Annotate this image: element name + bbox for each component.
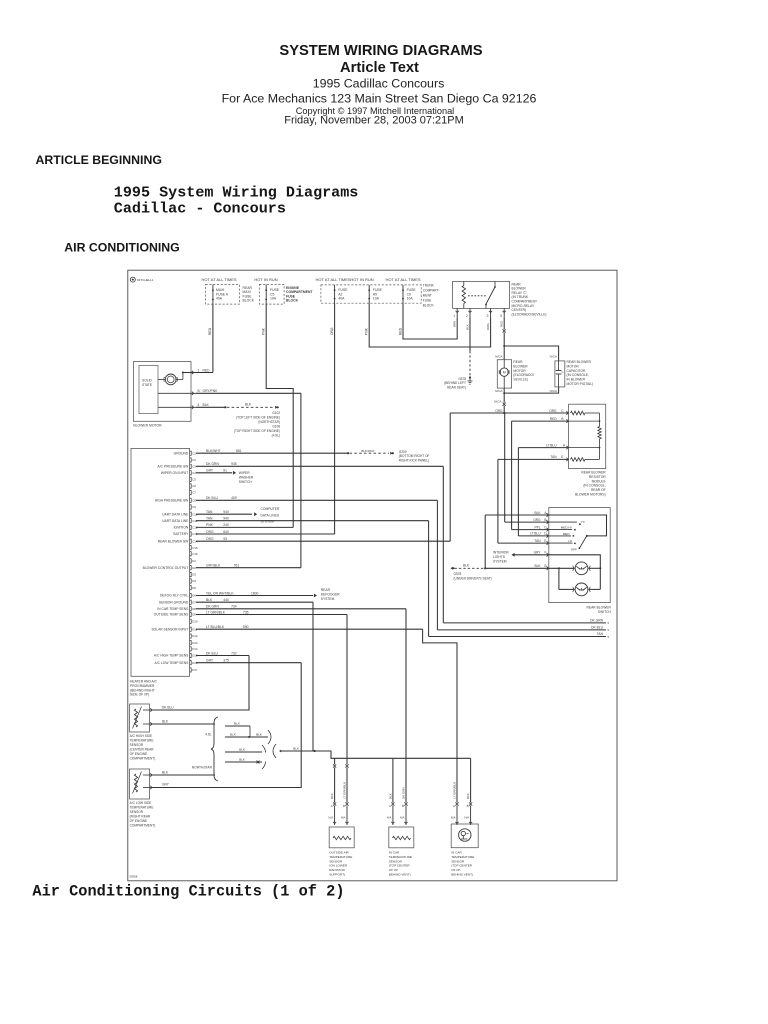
svg-text:B: B — [198, 389, 200, 393]
svg-text:REAR SEAT): REAR SEAT) — [447, 385, 466, 389]
svg-text:SYSTEM: SYSTEM — [493, 559, 507, 563]
svg-text:N/A: N/A — [400, 816, 405, 820]
svg-text:IN CAR: IN CAR — [389, 851, 400, 855]
svg-text:DK GRN: DK GRN — [206, 462, 219, 466]
svg-text:C15: C15 — [192, 546, 198, 550]
svg-text:TEMPERATURE: TEMPERATURE — [389, 855, 412, 859]
wiper washer switch arrow — [233, 471, 236, 475]
svg-text:A: A — [389, 804, 391, 808]
svg-text:DK BLU: DK BLU — [591, 626, 604, 630]
svg-text:For Ace Mechanics 123 Main Str: For Ace Mechanics 123 Main Street San Di… — [222, 91, 537, 105]
svg-text:93: 93 — [223, 537, 227, 541]
svg-text:BLK: BLK — [162, 771, 169, 775]
svg-text:1600: 1600 — [251, 591, 259, 595]
svg-text:1: 1 — [198, 368, 200, 372]
svg-text:(RIGHT REAR: (RIGHT REAR — [130, 815, 151, 819]
wire LT BLU feed to switch pin D — [517, 448, 519, 536]
splice wires 4.9L — [225, 725, 250, 727]
svg-text:N/A: N/A — [328, 816, 333, 820]
in car sensor aspirator — [451, 824, 478, 848]
module vertical resistor — [599, 413, 601, 427]
switch pin A common loop — [549, 515, 607, 536]
svg-text:5: 5 — [608, 621, 610, 625]
svg-text:BLK: BLK — [245, 403, 252, 407]
wire RED relay pin 5 to rear blower motor — [503, 318, 505, 330]
svg-text:SWITCH: SWITCH — [598, 610, 612, 614]
svg-text:DEFOG RLY CTRL: DEFOG RLY CTRL — [160, 594, 188, 598]
svg-text:LT BLU: LT BLU — [546, 443, 557, 447]
fuse MAXI FUSE A (rear maxi fuse block) — [206, 285, 240, 305]
svg-text:G102: G102 — [272, 411, 280, 415]
wire ORG jog to programmer rear blower row — [450, 412, 504, 414]
svg-text:SENSOR GROUND: SENSOR GROUND — [159, 600, 189, 604]
svg-text:DK BLU: DK BLU — [206, 651, 219, 655]
svg-text:C2: C2 — [192, 458, 196, 462]
svg-text:440: 440 — [223, 598, 229, 602]
svg-text:ORG: ORG — [486, 323, 490, 331]
svg-text:A/C LOW TEMP SENS: A/C LOW TEMP SENS — [155, 661, 190, 665]
wire DK GRN riser to exit — [442, 466, 444, 623]
wire DK BLU 732 A/C high temp — [196, 655, 249, 657]
heater and A/C programmer box — [131, 448, 190, 676]
svg-text:C4: C4 — [192, 471, 196, 475]
wire RED from maxi fuse A to blower motor pin 1 — [212, 304, 214, 372]
svg-text:BLK: BLK — [463, 564, 470, 568]
svg-text:BRN: BRN — [453, 321, 457, 327]
svg-text:BLK: BLK — [234, 722, 241, 726]
svg-text:375: 375 — [223, 659, 229, 663]
svg-text:GRY/BLK: GRY/BLK — [206, 564, 221, 568]
svg-text:2: 2 — [466, 314, 468, 318]
wire ORG 93 rear blower switch feed — [196, 540, 450, 542]
svg-text:N/CA: N/CA — [550, 354, 558, 358]
switch position LO — [549, 542, 573, 544]
svg-text:HOT AT ALL TIMES: HOT AT ALL TIMES — [201, 277, 236, 282]
svg-text:DEFOGGER: DEFOGGER — [321, 593, 340, 597]
svg-text:GRY/PNK: GRY/PNK — [203, 389, 219, 393]
svg-text:BLOWER CONTROL OUTPUT: BLOWER CONTROL OUTPUT — [143, 566, 189, 570]
svg-text:ORG: ORG — [533, 518, 541, 522]
ground G578 behind left rear seat — [469, 376, 471, 378]
svg-text:(TOP RIGHT SIDE OF ENGINE): (TOP RIGHT SIDE OF ENGINE) — [234, 429, 280, 433]
svg-text:COMPART-: COMPART- — [423, 289, 440, 293]
switch position MED HI — [549, 529, 572, 531]
svg-text:LT BLU/BLK: LT BLU/BLK — [206, 625, 225, 629]
svg-text:D12: D12 — [192, 634, 198, 638]
svg-text:Air Conditioning Circuits (1 o: Air Conditioning Circuits (1 of 2) — [32, 883, 344, 901]
svg-text:WASHER: WASHER — [239, 475, 254, 479]
svg-text:DK GRN: DK GRN — [402, 787, 406, 799]
svg-text:MENT: MENT — [423, 294, 432, 298]
wire DK BLU 409 high pressure switch — [196, 499, 437, 501]
svg-text:10A: 10A — [270, 297, 277, 301]
wire BLK 440 sensor ground — [196, 601, 313, 603]
svg-text:REAR BLOWER SW: REAR BLOWER SW — [158, 539, 189, 543]
svg-text:TAN: TAN — [206, 510, 213, 514]
svg-text:D9: D9 — [192, 613, 196, 617]
svg-text:BATTERY: BATTERY — [173, 532, 189, 536]
svg-text:PROGRAMMER: PROGRAMMER — [130, 684, 155, 688]
svg-text:OUTSIDE TEMP SENS: OUTSIDE TEMP SENS — [154, 613, 189, 617]
svg-text:BLK: BLK — [389, 793, 393, 799]
svg-text:RED: RED — [398, 327, 402, 335]
wire ORG 640 battery — [196, 533, 335, 535]
wire DK GRN 935 A/C pressure switch — [196, 465, 443, 467]
wire GRY drop to low side sensor — [152, 663, 301, 788]
svg-text:HOT IN RUN: HOT IN RUN — [350, 277, 373, 282]
svg-text:COMPUTER: COMPUTER — [261, 507, 280, 511]
svg-text:B: B — [343, 804, 345, 808]
svg-text:IGNITION: IGNITION — [174, 526, 189, 530]
blower pins — [183, 372, 196, 374]
svg-text:(NORTHSTAR): (NORTHSTAR) — [258, 420, 280, 424]
switch pin F to lamp rail — [549, 555, 601, 569]
svg-text:5: 5 — [500, 314, 502, 318]
svg-text:(UNDER DRIVER'S SEAT): (UNDER DRIVER'S SEAT) — [454, 576, 492, 580]
wire BLK to ground G102/G108 — [196, 406, 225, 408]
svg-text:PNK: PNK — [262, 327, 266, 335]
svg-text:C1: C1 — [192, 451, 196, 455]
svg-text:OF ENGINE: OF ENGINE — [130, 752, 148, 756]
svg-text:GRY: GRY — [534, 551, 542, 555]
svg-text:91: 91 — [223, 469, 227, 473]
diagram border frame — [128, 270, 617, 881]
svg-text:C3: C3 — [192, 464, 196, 468]
svg-text:N/CA: N/CA — [495, 389, 503, 393]
svg-text:TEMPERATURE: TEMPERATURE — [130, 739, 154, 743]
relay contact switch — [468, 295, 486, 297]
svg-text:GRY: GRY — [162, 783, 170, 787]
svg-text:B: B — [467, 804, 469, 808]
svg-text:MODULE: MODULE — [592, 479, 607, 483]
svg-text:STATE: STATE — [142, 383, 153, 387]
svg-text:BLK: BLK — [239, 748, 246, 752]
svg-text:935: 935 — [231, 462, 237, 466]
wire PNK from fuse A9 to relay pin 3 — [369, 303, 490, 347]
switch pin labels — [547, 513, 549, 517]
splice brace left — [211, 717, 218, 781]
wire BLK low side sensor — [152, 774, 215, 776]
svg-text:BLK/WHT: BLK/WHT — [206, 449, 221, 453]
svg-text:HOT AT ALL TIMES: HOT AT ALL TIMES — [315, 277, 350, 282]
svg-text:N/A: N/A — [464, 816, 469, 820]
wire DK GRN exit to page 2 — [443, 622, 606, 624]
svg-text:40A: 40A — [216, 297, 223, 301]
svg-text:SENSOR: SENSOR — [329, 859, 343, 863]
svg-text:D3: D3 — [192, 573, 196, 577]
svg-text:BLK: BLK — [330, 793, 334, 799]
svg-text:732: 732 — [231, 651, 237, 655]
switch position MED — [549, 535, 571, 537]
svg-text:D17: D17 — [192, 668, 198, 672]
svg-text:SEVILLE): SEVILLE) — [513, 378, 527, 382]
svg-text:A/C LOW SIDE: A/C LOW SIDE — [130, 801, 152, 805]
svg-text:SOLID: SOLID — [142, 378, 153, 382]
svg-text:SWITCH: SWITCH — [239, 480, 253, 484]
svg-text:LT GRN/BLK: LT GRN/BLK — [206, 610, 226, 614]
wire BLK branch outside sensor — [334, 758, 336, 764]
svg-text:(IN CONSOLE,: (IN CONSOLE, — [583, 484, 605, 488]
wire GRY/BLK 761 blower control — [196, 567, 301, 569]
svg-text:REAR BLOWER: REAR BLOWER — [581, 471, 606, 475]
svg-text:B: B — [561, 417, 563, 421]
svg-text:A/C PRESSURE SW: A/C PRESSURE SW — [158, 465, 190, 469]
svg-text:(CENTER REAR: (CENTER REAR — [130, 748, 155, 752]
svg-text:3: 3 — [487, 314, 489, 318]
svg-text:LO: LO — [568, 539, 573, 543]
module pin C wire ORG — [504, 412, 568, 414]
svg-text:LT GRN/BLK: LT GRN/BLK — [343, 782, 347, 799]
outside air temperature sensor — [329, 827, 354, 848]
svg-text:4.9L: 4.9L — [205, 732, 212, 736]
svg-text:A: A — [544, 511, 547, 515]
svg-text:HIGH PRESSURE SW: HIGH PRESSURE SW — [155, 499, 189, 503]
svg-text:BLK: BLK — [230, 733, 237, 737]
svg-text:(IN CONSOLE,: (IN CONSOLE, — [567, 373, 589, 377]
svg-text:C7: C7 — [192, 491, 196, 495]
wire ORG from fuse A2 to programmer battery — [334, 303, 336, 534]
svg-text:940: 940 — [223, 517, 229, 521]
svg-text:(ELDORADO/SEVILLE): (ELDORADO/SEVILLE) — [512, 312, 547, 316]
wire BLK feed to switch pin A — [485, 514, 549, 516]
svg-text:HI: HI — [581, 520, 584, 524]
svg-text:Cadillac - Concours: Cadillac - Concours — [114, 200, 286, 218]
ground G578 under drivers seat — [451, 567, 453, 570]
switch lamps — [549, 567, 575, 569]
svg-text:DK GRN: DK GRN — [206, 605, 219, 609]
svg-text:D2: D2 — [192, 566, 196, 570]
wire PNK from fuse C5 ignition feed — [266, 304, 293, 527]
svg-text:REAR OF: REAR OF — [591, 488, 606, 492]
svg-text:BLOWER: BLOWER — [513, 364, 528, 368]
svg-text:SYSTEM: SYSTEM — [321, 597, 335, 601]
svg-text:SYSTEM WIRING DIAGRAMS: SYSTEM WIRING DIAGRAMS — [279, 43, 482, 59]
svg-text:BLOCK: BLOCK — [243, 299, 255, 303]
svg-text:734: 734 — [231, 605, 237, 609]
svg-text:N/A: N/A — [341, 816, 346, 820]
svg-text:PPL: PPL — [534, 525, 540, 529]
svg-text:5: 5 — [608, 635, 610, 639]
svg-text:RIGHT KICK PANEL): RIGHT KICK PANEL) — [399, 458, 429, 462]
svg-text:RESISTOR: RESISTOR — [589, 475, 606, 479]
wire to capacitor top — [504, 346, 558, 361]
wire ORG feed to switch pin B — [504, 413, 506, 522]
svg-text:BLOCK: BLOCK — [286, 299, 299, 303]
svg-text:N/CA: N/CA — [550, 389, 558, 393]
fuse C5 (engine compartment fuse block) — [259, 285, 284, 305]
svg-text:MITCHELL1: MITCHELL1 — [137, 278, 154, 282]
svg-text:COMPARTMENT): COMPARTMENT) — [130, 757, 156, 761]
svg-text:(TOP CENTER: (TOP CENTER — [451, 864, 473, 868]
svg-text:TAN: TAN — [597, 632, 604, 636]
blower motor box — [133, 362, 191, 422]
svg-text:N/A: N/A — [387, 816, 392, 820]
svg-text:BEHIND VENT): BEHIND VENT) — [389, 873, 411, 877]
module resistor bottom — [571, 458, 586, 462]
svg-text:N/A: N/A — [451, 816, 456, 820]
svg-text:UART DATA LINE: UART DATA LINE — [162, 512, 189, 516]
svg-text:TEMPERATURE: TEMPERATURE — [329, 855, 352, 859]
module pin E wire TAN — [498, 458, 569, 460]
svg-text:761: 761 — [234, 564, 240, 568]
A/C high side temperature sensor — [130, 704, 150, 732]
svg-text:BLK: BLK — [466, 793, 470, 799]
svg-text:MED: MED — [563, 532, 571, 536]
svg-text:ORG: ORG — [330, 327, 334, 335]
rear blower motor capacitor — [555, 361, 565, 387]
svg-text:10A: 10A — [373, 297, 380, 301]
svg-text:ORG: ORG — [206, 537, 214, 541]
svg-text:OF I/P,: OF I/P, — [389, 868, 399, 872]
blower solid state module — [139, 365, 158, 413]
programmer pin brackets — [190, 451, 192, 455]
switch position HI — [549, 521, 577, 523]
svg-text:COMPARTMENT): COMPARTMENT) — [130, 824, 156, 828]
svg-text:INTERIOR: INTERIOR — [493, 551, 509, 555]
relay coil — [462, 286, 465, 304]
svg-text:A: A — [331, 804, 333, 808]
switch blade — [579, 536, 586, 548]
svg-text:A/C HIGH TEMP SENS: A/C HIGH TEMP SENS — [154, 654, 189, 658]
svg-text:BLOWER MOTORS): BLOWER MOTORS) — [575, 493, 606, 497]
svg-text:BLK: BLK — [256, 733, 263, 737]
svg-text:TAN: TAN — [550, 455, 557, 459]
svg-text:BLK: BLK — [293, 747, 300, 751]
wire motor bottom to capacitor bottom — [503, 388, 505, 393]
module resistor top — [571, 411, 586, 415]
svg-text:BLOWER MOTOR: BLOWER MOTOR — [133, 423, 162, 427]
svg-text:C: C — [544, 525, 547, 529]
svg-text:BLK: BLK — [465, 324, 469, 330]
wire LT GRN/BLK riser to outside sensor — [346, 615, 348, 765]
svg-text:G578: G578 — [454, 572, 462, 576]
svg-text:(TOP CENTER: (TOP CENTER — [389, 864, 411, 868]
wire PNK 240 ignition — [196, 526, 293, 528]
wire DK BLU exit to page 2 — [437, 629, 606, 631]
svg-text:RED: RED — [500, 320, 504, 327]
svg-text:GRY: GRY — [206, 469, 214, 473]
svg-text:(TOP LEFT SIDE OF ENGINE): (TOP LEFT SIDE OF ENGINE) — [236, 415, 280, 419]
svg-text:C: C — [561, 409, 564, 413]
svg-text:REAR BLOWER: REAR BLOWER — [587, 606, 612, 610]
svg-text:REAR: REAR — [513, 360, 523, 364]
svg-text:E: E — [561, 455, 563, 459]
svg-text:D7: D7 — [192, 600, 196, 604]
mitchell logo — [130, 277, 135, 282]
svg-text:640: 640 — [223, 530, 229, 534]
svg-text:409: 409 — [231, 496, 237, 500]
interior lights system arrow — [512, 553, 515, 557]
svg-text:D1: D1 — [192, 559, 196, 563]
svg-text:YEL OR WHT/BLK: YEL OR WHT/BLK — [206, 591, 234, 595]
svg-text:SENSOR: SENSOR — [130, 810, 144, 814]
svg-text:WIPER ON INPUT: WIPER ON INPUT — [161, 471, 188, 475]
svg-text:C6: C6 — [192, 484, 196, 488]
wire TAN riser to exit — [428, 521, 430, 637]
svg-text:590: 590 — [243, 625, 249, 629]
svg-text:(BEHIND RIGHT: (BEHIND RIGHT — [130, 688, 155, 692]
svg-text:TAN: TAN — [534, 539, 541, 543]
svg-text:RED: RED — [208, 327, 212, 335]
rear blower resistor module box — [569, 404, 606, 468]
svg-text:TRUNK: TRUNK — [423, 284, 435, 288]
relay rear blower relay C — [453, 281, 510, 308]
svg-text:LT GRN/BLK: LT GRN/BLK — [453, 782, 457, 799]
wire GRY 91 to wiper washer switch — [196, 472, 232, 474]
svg-text:D10: D10 — [192, 619, 198, 623]
svg-text:REAR: REAR — [321, 588, 331, 592]
wire BLK/WHT 851 to ground G200 — [196, 452, 348, 454]
wire GRY/BLK riser to blower motor pin B — [300, 393, 302, 567]
svg-text:C: C — [562, 370, 564, 374]
svg-text:5: 5 — [608, 628, 610, 632]
svg-text:Friday, November 28, 2003 07:: Friday, November 28, 2003 07:21PM — [284, 115, 464, 127]
svg-text:IN CAR: IN CAR — [451, 851, 462, 855]
svg-text:GROUND: GROUND — [174, 451, 189, 455]
svg-text:SENSOR: SENSOR — [389, 859, 403, 863]
svg-text:1: 1 — [453, 314, 455, 318]
svg-text:N/CA: N/CA — [494, 400, 502, 404]
wire BLK relay pin 2 to ground G578 — [469, 318, 471, 351]
rear blower motor (eldorado/seville) — [497, 360, 511, 388]
svg-text:BLK: BLK — [534, 511, 541, 515]
sensor wire connectors — [333, 802, 336, 805]
svg-text:SIDE OF I/P): SIDE OF I/P) — [130, 693, 149, 697]
svg-text:SUPPORT): SUPPORT) — [329, 873, 345, 877]
svg-text:WIPER: WIPER — [239, 471, 250, 475]
wire YEL 1600 defog relay control — [196, 595, 313, 597]
svg-text:HOT AT ALL TIMES: HOT AT ALL TIMES — [385, 277, 420, 282]
svg-text:ORG: ORG — [495, 409, 503, 413]
wire BLK branch aspirator — [470, 758, 472, 802]
blower motor symbol — [158, 378, 165, 380]
svg-text:D13: D13 — [192, 641, 198, 645]
svg-text:BLK: BLK — [203, 403, 210, 407]
svg-text:D14: D14 — [192, 647, 198, 651]
rear defogger system arrow — [314, 594, 317, 598]
svg-text:940: 940 — [223, 510, 229, 514]
svg-text:PNK: PNK — [206, 523, 214, 527]
svg-text:10A: 10A — [407, 297, 414, 301]
svg-text:851: 851 — [236, 449, 242, 453]
svg-text:D6: D6 — [192, 594, 196, 598]
svg-text:(ON LOWER: (ON LOWER — [329, 864, 348, 868]
svg-text:1995 Cadillac Concours: 1995 Cadillac Concours — [313, 77, 445, 91]
computer data lines arrow — [254, 512, 257, 516]
svg-text:DK BLU: DK BLU — [162, 706, 174, 710]
rear blower switch box — [549, 508, 610, 603]
svg-text:DK BLU: DK BLU — [206, 496, 219, 500]
svg-text:PNK: PNK — [365, 327, 369, 335]
svg-text:MOTOR: MOTOR — [513, 369, 526, 373]
svg-text:50568: 50568 — [130, 875, 138, 879]
wire TAN 940 uart data — [196, 513, 252, 515]
svg-text:OF I/P,: OF I/P, — [451, 868, 461, 872]
svg-text:ORG: ORG — [549, 409, 557, 413]
svg-text:MED HI: MED HI — [561, 526, 572, 530]
svg-text:(4.9L): (4.9L) — [272, 433, 280, 437]
svg-text:A: A — [453, 804, 455, 808]
svg-text:D4: D4 — [192, 579, 196, 583]
svg-text:DK GRN: DK GRN — [590, 619, 603, 623]
svg-text:BLK: BLK — [239, 758, 246, 762]
wire BLK branch in car sensor — [392, 758, 394, 802]
svg-text:M: M — [503, 371, 506, 375]
svg-text:TEMPERATURE: TEMPERATURE — [451, 855, 474, 859]
wire LT BLU/BLK 590 solar sensor — [196, 628, 423, 630]
wire PPL feed to switch pin C — [511, 421, 513, 529]
wire DK GRN 734 in car temp — [196, 608, 406, 610]
